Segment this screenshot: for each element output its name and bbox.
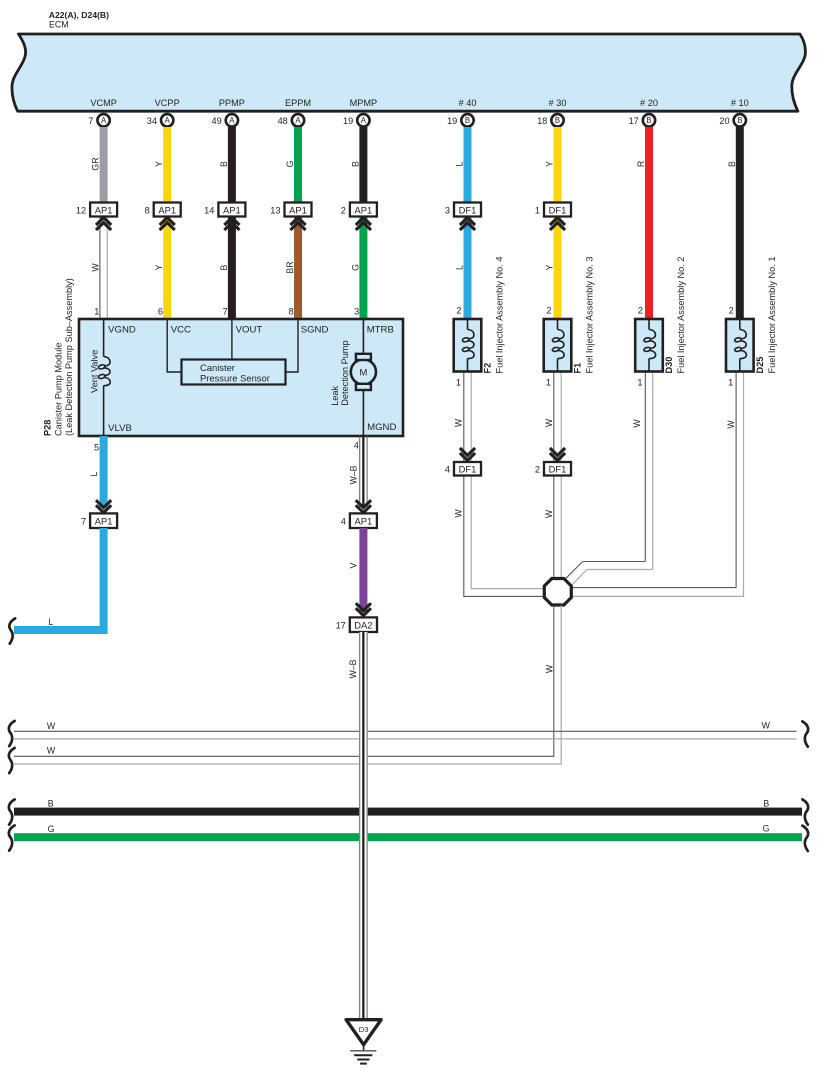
- svg-text:B: B: [350, 161, 360, 167]
- fuel injector D30 (No. 2): [635, 257, 686, 388]
- svg-text:8: 8: [289, 307, 294, 317]
- svg-text:Fuel Injector Assembly No. 1: Fuel Injector Assembly No. 1: [767, 257, 777, 374]
- svg-text:VCC: VCC: [171, 325, 191, 336]
- leak detection pump motor M: [330, 320, 376, 435]
- svg-text:1: 1: [637, 378, 642, 388]
- svg-text:7: 7: [81, 517, 86, 527]
- svg-text:L: L: [48, 617, 53, 627]
- svg-text:A: A: [361, 116, 367, 125]
- svg-text:VGND: VGND: [108, 325, 136, 336]
- connector 4 DF1: [445, 448, 481, 476]
- svg-text:L: L: [455, 161, 465, 166]
- svg-text:19: 19: [447, 116, 457, 126]
- svg-text:7: 7: [88, 116, 93, 126]
- wire L VLVB to connector: [89, 436, 111, 513]
- ECM terminal 19(A): [343, 114, 370, 126]
- svg-text:6: 6: [158, 307, 163, 317]
- svg-text:F1: F1: [573, 363, 583, 374]
- wire L from ECM: [455, 127, 472, 203]
- svg-text:B: B: [646, 116, 651, 125]
- wire W-B DA2 to ground: [348, 632, 368, 1020]
- svg-text:VCPP: VCPP: [155, 98, 180, 108]
- connector 14 AP1: [204, 203, 245, 231]
- svg-text:EPPM: EPPM: [285, 98, 311, 108]
- svg-text:L: L: [89, 471, 99, 476]
- svg-text:4: 4: [341, 517, 346, 527]
- svg-text:A: A: [101, 116, 107, 125]
- svg-text:Y: Y: [154, 161, 164, 167]
- svg-text:17: 17: [629, 116, 639, 126]
- svg-text:Pressure Sensor: Pressure Sensor: [200, 372, 270, 383]
- svg-text:Canister Pump Module: Canister Pump Module: [53, 343, 63, 436]
- svg-text:Detection Pump: Detection Pump: [340, 340, 350, 405]
- connector 12 AP1: [76, 203, 117, 231]
- fuel injector F1 (No. 3): [544, 257, 595, 388]
- wire Y to component: [545, 217, 562, 320]
- svg-text:DF1: DF1: [549, 204, 567, 215]
- ECM terminal 49(A): [211, 114, 238, 126]
- svg-text:W: W: [454, 418, 464, 427]
- svg-text:2: 2: [341, 205, 346, 215]
- svg-text:B: B: [219, 264, 229, 270]
- ECM terminal 7(A): [88, 114, 110, 126]
- svg-text:DA2: DA2: [354, 620, 372, 631]
- svg-text:1: 1: [546, 378, 551, 388]
- wire V to DA2: [348, 528, 371, 616]
- svg-text:W: W: [454, 509, 464, 518]
- svg-text:A: A: [295, 116, 301, 125]
- svg-text:F2: F2: [483, 363, 493, 374]
- ECM terminal 20(B): [719, 114, 746, 126]
- svg-text:34: 34: [147, 116, 157, 126]
- svg-text:B: B: [48, 799, 54, 809]
- connector 2 DF1: [535, 448, 571, 476]
- svg-text:Vent Valve: Vent Valve: [90, 350, 100, 393]
- svg-text:MGND: MGND: [367, 422, 396, 433]
- svg-text:W: W: [91, 263, 101, 272]
- svg-text:1: 1: [456, 378, 461, 388]
- svg-text:BR: BR: [285, 261, 295, 273]
- wire B from ECM: [219, 127, 236, 203]
- svg-text:ECM: ECM: [49, 20, 69, 30]
- svg-text:1: 1: [535, 205, 540, 215]
- svg-text:13: 13: [270, 205, 280, 215]
- wire B to component: [219, 217, 236, 320]
- svg-text:7: 7: [223, 307, 228, 317]
- svg-text:Y: Y: [154, 264, 164, 270]
- svg-text:14: 14: [204, 205, 214, 215]
- connector 1 DF1: [535, 203, 571, 231]
- wire G horizontal: [9, 824, 808, 851]
- svg-text:2: 2: [729, 306, 734, 316]
- svg-text:W–B: W–B: [348, 659, 358, 678]
- connector 8 AP1: [145, 203, 181, 231]
- svg-text:1: 1: [94, 307, 99, 317]
- svg-text:3: 3: [354, 307, 359, 317]
- svg-text:G: G: [285, 160, 295, 167]
- ground D3: [346, 1020, 381, 1064]
- wire B from ECM: [350, 127, 367, 203]
- canister pump module P28 body: [79, 319, 403, 436]
- svg-text:GR: GR: [91, 157, 101, 170]
- svg-text:A: A: [165, 116, 171, 125]
- svg-text:SGND: SGND: [301, 325, 329, 336]
- svg-text:B: B: [737, 116, 742, 125]
- wire B from ECM to injector: [727, 127, 744, 319]
- svg-text:W: W: [47, 721, 56, 731]
- svg-text:W–B: W–B: [348, 465, 358, 484]
- wire Y from ECM: [154, 127, 171, 203]
- svg-text:4: 4: [445, 464, 450, 474]
- svg-text:Y: Y: [545, 161, 555, 167]
- svg-text:B: B: [555, 116, 560, 125]
- svg-text:DF1: DF1: [459, 204, 477, 215]
- connector 13 AP1: [270, 203, 311, 231]
- svg-text:L: L: [455, 265, 465, 270]
- svg-text:AP1: AP1: [95, 204, 113, 215]
- wire Y to component: [154, 217, 171, 320]
- ECM terminal 17(B): [629, 114, 656, 126]
- svg-text:1: 1: [728, 378, 733, 388]
- svg-text:2: 2: [546, 306, 551, 316]
- svg-text:4: 4: [354, 441, 359, 451]
- wire L to left break: [9, 528, 103, 644]
- svg-text:B: B: [219, 161, 229, 167]
- svg-text:12: 12: [76, 205, 86, 215]
- svg-text:W: W: [545, 664, 555, 673]
- svg-text:AP1: AP1: [95, 516, 113, 527]
- svg-text:B: B: [465, 116, 470, 125]
- ECM terminal 34(A): [147, 114, 174, 126]
- svg-text:D30: D30: [664, 357, 674, 374]
- svg-text:G: G: [350, 264, 360, 271]
- svg-text:49: 49: [211, 116, 221, 126]
- svg-text:AP1: AP1: [355, 516, 373, 527]
- svg-text:17: 17: [336, 621, 346, 631]
- wire W injector D30 to junction: [566, 372, 653, 585]
- svg-text:5: 5: [94, 443, 99, 453]
- svg-text:Leak: Leak: [330, 385, 340, 405]
- ECM terminal 48(A): [278, 114, 305, 126]
- svg-text:2: 2: [456, 306, 461, 316]
- connector 4 AP1: [341, 513, 377, 528]
- svg-text:A: A: [229, 116, 235, 125]
- wire G to component: [350, 217, 367, 320]
- svg-text:W: W: [544, 509, 554, 518]
- svg-text:3: 3: [445, 205, 450, 215]
- wire L to component: [455, 217, 472, 320]
- svg-text:20: 20: [719, 116, 729, 126]
- svg-text:A22(A), D24(B): A22(A), D24(B): [49, 10, 109, 20]
- wire W-B MGND to connector: [348, 436, 371, 513]
- svg-text:G: G: [763, 824, 770, 834]
- svg-text:DF1: DF1: [549, 463, 567, 474]
- wire W injector F2 to junction: [454, 372, 545, 597]
- ECM connector block: [12, 34, 805, 111]
- wire BR to component: [285, 217, 302, 320]
- svg-text:# 40: # 40: [459, 98, 477, 108]
- svg-text:P28: P28: [43, 420, 53, 436]
- svg-text:MPMP: MPMP: [350, 98, 378, 108]
- svg-text:18: 18: [537, 116, 547, 126]
- svg-text:G: G: [48, 824, 55, 834]
- svg-text:(Leak Detection Pump Sub–Assem: (Leak Detection Pump Sub–Assembly): [64, 278, 74, 436]
- svg-text:W: W: [544, 418, 554, 427]
- svg-text:VCMP: VCMP: [90, 98, 117, 108]
- svg-text:VLVB: VLVB: [108, 423, 132, 434]
- svg-text:AP1: AP1: [355, 204, 373, 215]
- vent valve coil: [90, 320, 111, 435]
- svg-text:PPMP: PPMP: [219, 98, 245, 108]
- connector 2 AP1: [341, 203, 377, 231]
- wire W injector F1 to junction: [544, 372, 561, 580]
- wire W (white) AP1 to VGND: [91, 217, 108, 320]
- canister pressure sensor: [167, 320, 298, 385]
- svg-text:8: 8: [145, 205, 150, 215]
- ECM title labels: [49, 10, 109, 30]
- svg-text:W: W: [762, 721, 771, 731]
- svg-text:V: V: [348, 563, 358, 569]
- svg-text:W: W: [726, 420, 736, 429]
- connector 17 DA2: [336, 617, 377, 632]
- ECM terminal 18(B): [537, 114, 564, 126]
- svg-text:D3: D3: [359, 1025, 369, 1034]
- svg-text:M: M: [359, 366, 367, 377]
- svg-text:2: 2: [535, 464, 540, 474]
- svg-text:# 10: # 10: [731, 98, 749, 108]
- wire W junction riser and left run (wire2): [9, 606, 561, 774]
- svg-text:D25: D25: [755, 357, 765, 374]
- svg-text:R: R: [636, 161, 646, 167]
- svg-text:AP1: AP1: [289, 204, 307, 215]
- svg-text:Fuel Injector Assembly No. 4: Fuel Injector Assembly No. 4: [495, 257, 505, 374]
- svg-text:B: B: [727, 161, 737, 167]
- fuel injector D25 (No. 1): [726, 257, 777, 388]
- junction node (octagon splice): [544, 579, 571, 606]
- svg-text:# 30: # 30: [549, 98, 567, 108]
- wire B horizontal: [9, 798, 808, 824]
- ECM terminal 19(B): [447, 114, 474, 126]
- wire Y from ECM: [545, 127, 562, 203]
- svg-text:VOUT: VOUT: [236, 325, 263, 336]
- svg-text:B: B: [763, 798, 769, 808]
- fuel injector F2 (No. 4): [454, 257, 505, 388]
- wire W injector D25 to junction: [571, 372, 744, 597]
- svg-text:MTRB: MTRB: [367, 325, 394, 336]
- svg-text:48: 48: [278, 116, 288, 126]
- connector 3 DF1: [445, 203, 481, 231]
- connector 7 AP1: [81, 513, 117, 528]
- wire G from ECM: [285, 127, 302, 203]
- svg-text:2: 2: [638, 306, 643, 316]
- svg-text:AP1: AP1: [223, 204, 241, 215]
- svg-text:19: 19: [343, 116, 353, 126]
- svg-text:AP1: AP1: [158, 204, 176, 215]
- wire GR from ECM: [91, 127, 108, 203]
- wire R from ECM to injector: [636, 127, 653, 319]
- svg-text:Fuel Injector Assembly No. 3: Fuel Injector Assembly No. 3: [585, 257, 595, 374]
- svg-text:W: W: [632, 419, 642, 428]
- svg-text:Y: Y: [545, 264, 555, 270]
- svg-text:# 20: # 20: [640, 98, 658, 108]
- svg-text:Fuel Injector Assembly No. 2: Fuel Injector Assembly No. 2: [676, 257, 686, 374]
- svg-text:W: W: [47, 745, 56, 755]
- wire W full-width (wire1): [9, 721, 808, 747]
- svg-text:DF1: DF1: [459, 463, 477, 474]
